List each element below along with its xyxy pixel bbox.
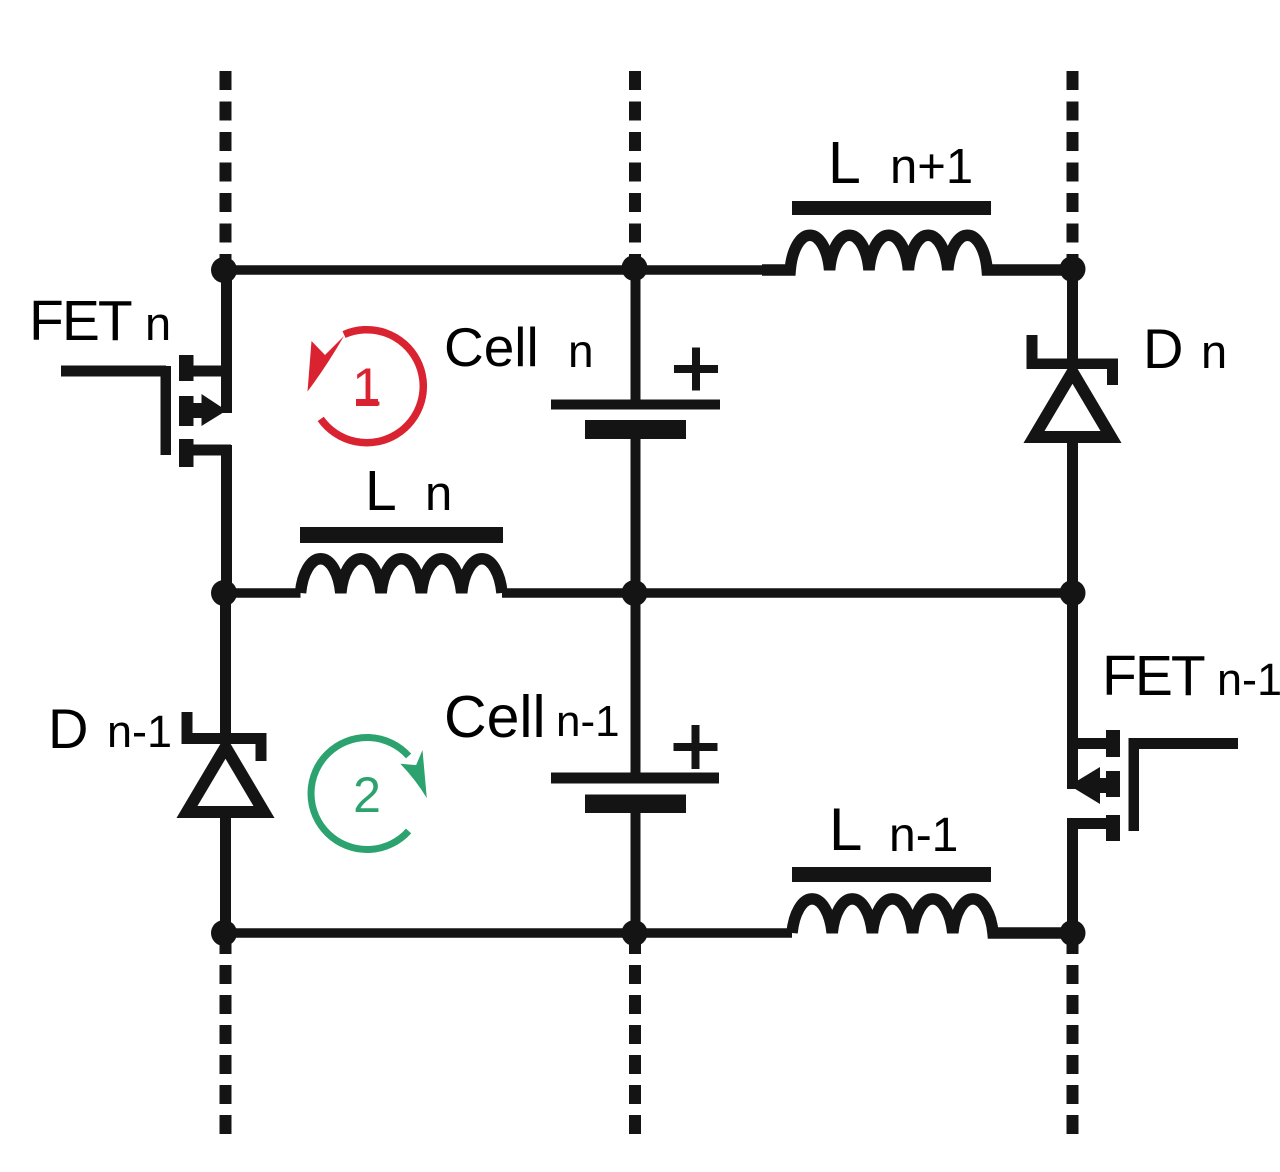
inductor L_n+1 coil <box>762 235 1073 270</box>
svg-text:D: D <box>1143 317 1183 380</box>
transistor FET_n-1 body arrow <box>1098 778 1107 793</box>
svg-text:L: L <box>365 459 397 523</box>
node middle-center junction <box>622 580 648 606</box>
wire bottom bus left segment <box>226 928 793 938</box>
wire dashed bus bottom-middle <box>629 935 641 1135</box>
battery Cell_n positive plate <box>551 400 720 410</box>
transistor FET_n-1 source stub <box>1106 815 1120 841</box>
diode D_n-1 cathode bar <box>182 733 267 744</box>
transistor FET_n drain stub <box>179 355 194 381</box>
transistor FET_n source connector <box>190 445 231 456</box>
transistor FET_n-1 drain connector <box>1067 738 1113 749</box>
wire top bus left segment <box>226 265 763 275</box>
transistor FET_n source stub <box>179 439 194 467</box>
diode D_n cathode right hook <box>1107 367 1118 385</box>
svg-text:FET: FET <box>1102 644 1205 708</box>
transistor FET_n-1 source connector <box>1067 818 1113 829</box>
battery Cell_n-1 positive wire <box>631 593 641 776</box>
inductor L_n coil <box>301 559 502 593</box>
loop label 1 <box>352 358 382 418</box>
svg-text:n-1: n-1 <box>107 706 172 757</box>
transistor FET_n-1 drain stub <box>1106 730 1120 757</box>
wire dashed bus top-left <box>220 71 232 270</box>
battery Cell_n negative plate <box>585 420 686 439</box>
svg-text:n+1: n+1 <box>890 140 973 194</box>
svg-text:L: L <box>828 130 861 196</box>
diode D_n cathode bar <box>1027 359 1119 370</box>
svg-text:FET: FET <box>29 289 132 353</box>
wire dashed bus top-right <box>1067 71 1079 268</box>
transistor FET_n-1 gate electrode <box>1129 738 1140 831</box>
node middle-right junction <box>1060 580 1086 606</box>
node bottom-right junction <box>1060 920 1086 946</box>
battery Cell_n-1 plus sign <box>674 725 718 769</box>
diode D_n-1 cathode left hook <box>182 712 193 735</box>
diode D_n anode wire top <box>1067 268 1078 360</box>
transistor FET_n-1 drain wire <box>1067 593 1078 789</box>
transistor FET_n body stub <box>179 396 194 426</box>
wire middle bus right segment <box>502 588 1073 598</box>
diode D_n cathode left hook <box>1027 335 1038 361</box>
svg-text:Cell: Cell <box>444 684 546 750</box>
node bottom-middle junction <box>622 920 648 946</box>
battery Cell_n plus sign <box>674 348 718 391</box>
inductor L_n-1 bar <box>792 867 991 882</box>
node middle-left junction <box>211 580 237 606</box>
transistor FET_n-1 gate wire <box>1133 738 1238 749</box>
inductor L_n+1 bar <box>792 201 991 215</box>
node bottom-left junction <box>211 920 237 946</box>
battery Cell_n negative wire <box>631 437 641 593</box>
transistor FET_n source wire <box>221 445 232 593</box>
svg-text:L: L <box>829 796 862 863</box>
diode D_n anode wire bottom <box>1067 440 1078 593</box>
wire dashed bus bottom-left <box>220 935 232 1135</box>
battery Cell_n-1 positive plate <box>551 773 719 784</box>
svg-text:n: n <box>425 467 452 521</box>
battery Cell_n positive wire <box>631 268 641 402</box>
loop arrow 1 (red, counter-clockwise) <box>308 330 424 443</box>
transistor FET_n gate wire <box>61 366 166 377</box>
svg-text:n-1: n-1 <box>889 809 958 862</box>
diode D_n-1 triangle <box>187 747 264 812</box>
inductor L_n-1 coil <box>792 899 1073 933</box>
transistor FET_n-1 body stub <box>1106 771 1120 797</box>
inductor L_n bar <box>300 527 503 543</box>
wire dashed bus top-middle <box>629 71 641 268</box>
battery Cell_n-1 negative wire <box>631 811 641 933</box>
svg-text:Cell: Cell <box>444 316 539 378</box>
svg-text:n: n <box>1201 325 1227 378</box>
node top-left junction <box>211 257 237 283</box>
svg-text:n: n <box>145 297 171 350</box>
node top-middle junction <box>622 255 648 281</box>
svg-text:2: 2 <box>353 767 381 823</box>
svg-text:D: D <box>48 697 88 760</box>
diode D_n-1 cathode wire top <box>220 593 231 736</box>
wire dashed bus bottom-right <box>1067 935 1079 1135</box>
node top-right junction <box>1060 256 1086 282</box>
svg-text:n: n <box>568 325 594 377</box>
svg-text:1: 1 <box>352 358 382 418</box>
diode D_n-1 cathode right hook <box>256 743 267 761</box>
transistor FET_n drain connector <box>190 366 231 377</box>
diode D_n-1 anode wire bottom <box>220 815 231 933</box>
svg-text:n-1: n-1 <box>556 697 620 746</box>
wire middle bus left segment <box>226 588 301 598</box>
transistor FET_n gate electrode <box>161 366 172 455</box>
battery Cell_n-1 negative plate <box>585 795 686 814</box>
transistor FET_n body arrow <box>193 403 202 418</box>
diode D_n triangle <box>1034 372 1111 437</box>
transistor FET_n drain wire <box>221 270 232 413</box>
svg-text:n-1: n-1 <box>1217 654 1280 705</box>
transistor FET_n-1 source wire <box>1067 818 1078 933</box>
loop arrow 2 (green, clockwise) <box>311 738 427 850</box>
